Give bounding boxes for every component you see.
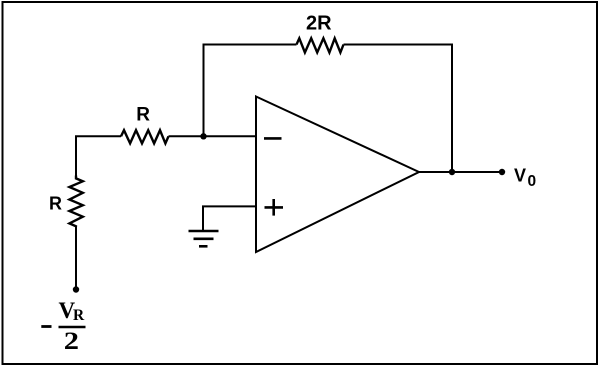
- op-amp non-inverting input plus sign: [265, 199, 284, 216]
- wire feedback left vertical: [203, 45, 205, 138]
- svg-text:2: 2: [64, 327, 79, 355]
- wire from input resistor to inverting input of op-amp: [169, 135, 257, 137]
- wire feedback top left: [203, 44, 297, 46]
- wire feedback top right and down to output: [344, 45, 453, 173]
- svg-text:V: V: [514, 166, 526, 186]
- label 2R (feedback resistor value): [306, 12, 332, 34]
- wire from source terminal up to resistor R (left vertical): [75, 227, 77, 290]
- op-amp U1: [256, 97, 419, 253]
- svg-text:2R: 2R: [306, 12, 332, 34]
- label V0 (output voltage): [514, 166, 536, 191]
- node output terminal: [499, 169, 505, 175]
- node source terminal -VR/2: [73, 286, 79, 292]
- resistor R (left vertical): [69, 176, 82, 227]
- wire from ground to non-inverting input: [203, 206, 256, 231]
- op-amp inverting input minus sign: [264, 137, 282, 140]
- label -VR/2 (source voltage): [41, 298, 85, 355]
- wire output: [419, 171, 502, 173]
- node junction at output feedback tap: [449, 169, 455, 175]
- svg-text:R: R: [49, 193, 62, 213]
- node junction at inverting input: [200, 133, 206, 139]
- ground: [189, 231, 219, 246]
- svg-text:R: R: [136, 104, 150, 125]
- resistor R (input horizontal): [121, 130, 169, 143]
- label R (left resistor value): [49, 193, 62, 213]
- svg-text:0: 0: [528, 173, 537, 190]
- svg-text:R: R: [73, 307, 85, 324]
- resistor 2R (feedback): [297, 38, 344, 52]
- label R (input resistor value): [136, 104, 150, 125]
- wire from left resistor up and right to input resistor: [76, 136, 121, 175]
